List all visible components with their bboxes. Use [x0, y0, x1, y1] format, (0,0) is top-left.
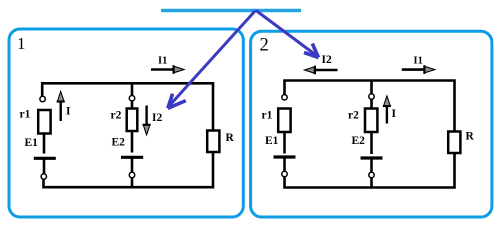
node bottom of E1 branch (panel 1) [41, 174, 46, 179]
svg-text:I1: I1 [158, 56, 167, 67]
wire top (panel 1) [42, 83, 213, 130]
svg-text:E2: E2 [352, 135, 366, 147]
wire battery E2 to node (panel 1) [131, 158, 134, 173]
top highlight line [161, 9, 301, 12]
svg-text:2: 2 [260, 36, 269, 56]
svg-text:I2: I2 [152, 112, 162, 124]
current arrow I1 right (panel 2, top) [402, 65, 435, 74]
frame panel 2 [251, 31, 492, 217]
current arrow I up (panel 1, left branch) [57, 92, 65, 122]
wire battery E1 to node (panel 1) [43, 159, 46, 174]
current arrow I up (panel 2, middle branch) [383, 96, 391, 124]
battery E1 plate (panel 2) [274, 155, 296, 158]
node top of r2 (panel 1) [129, 96, 134, 101]
pointer arrow to I2 of panel 2 [256, 11, 319, 58]
current arrow I2 left (panel 2, top) [305, 66, 338, 75]
wire r1 to battery E1 (panel 2) [283, 132, 286, 154]
battery E2 plate (panel 1) [121, 156, 143, 159]
wire middle branch below node (panel 1) [131, 101, 134, 109]
svg-text:E2: E2 [112, 137, 126, 149]
svg-text:r2: r2 [348, 110, 359, 122]
wire middle branch below node (panel 2) [370, 99, 373, 109]
wire middle branch top (panel 1) [131, 83, 134, 95]
wire top (panel 2) [285, 81, 455, 132]
svg-text:R: R [466, 131, 475, 143]
svg-text:R: R [226, 132, 235, 144]
svg-text:r2: r2 [111, 110, 122, 122]
node top of r1 (panel 1) [40, 96, 45, 101]
svg-text:I: I [66, 106, 71, 118]
svg-text:E1: E1 [25, 137, 39, 149]
pointer arrow to I2 of panel 1 [168, 11, 256, 109]
node bottom of E2 branch (panel 2) [369, 172, 374, 177]
svg-text:I: I [392, 108, 397, 120]
wire r1 to battery E1 (panel 1) [43, 134, 46, 154]
wire bottom (panel 1) [44, 152, 214, 187]
resistor r2 (panel 2) [365, 109, 377, 133]
svg-text:1: 1 [17, 34, 26, 53]
battery E2 plate (panel 2) [361, 156, 383, 159]
wire battery E2 to node (panel 2) [370, 160, 373, 173]
svg-text:r1: r1 [262, 110, 273, 122]
resistor r1 (panel 2) [278, 109, 290, 133]
svg-text:r1: r1 [20, 109, 31, 121]
wire node to bottom (panel 2 middle) [370, 178, 373, 188]
wire battery E1 to node (panel 2) [283, 159, 286, 172]
resistor R (panel 1) [207, 131, 219, 153]
wire r2 to battery E2 (panel 2) [370, 132, 373, 154]
wire node to bottom (panel 1 middle) [131, 178, 134, 188]
current arrow I2 down (panel 1, middle branch) [143, 106, 151, 135]
wire middle branch top (panel 2) [370, 81, 373, 95]
resistor R (panel 2) [448, 132, 460, 154]
wire r2 to battery E2 (panel 1) [131, 131, 134, 153]
wire bottom (panel 2) [285, 153, 455, 188]
node top of r1 (panel 2) [282, 95, 287, 100]
node bottom of E2 branch (panel 1) [129, 172, 134, 177]
current arrow I1 right (panel 1, top) [151, 65, 184, 74]
svg-text:E1: E1 [265, 135, 279, 147]
resistor r1 (panel 1) [38, 110, 50, 134]
frame panel 1 [9, 29, 243, 217]
node bottom of E1 branch (panel 2) [282, 171, 287, 176]
svg-text:I1: I1 [414, 56, 423, 67]
node top of r2 (panel 2) [369, 94, 374, 99]
svg-text:I2: I2 [322, 54, 332, 66]
battery E1 plate (panel 1) [34, 157, 56, 160]
resistor r2 (panel 1) [127, 109, 138, 132]
